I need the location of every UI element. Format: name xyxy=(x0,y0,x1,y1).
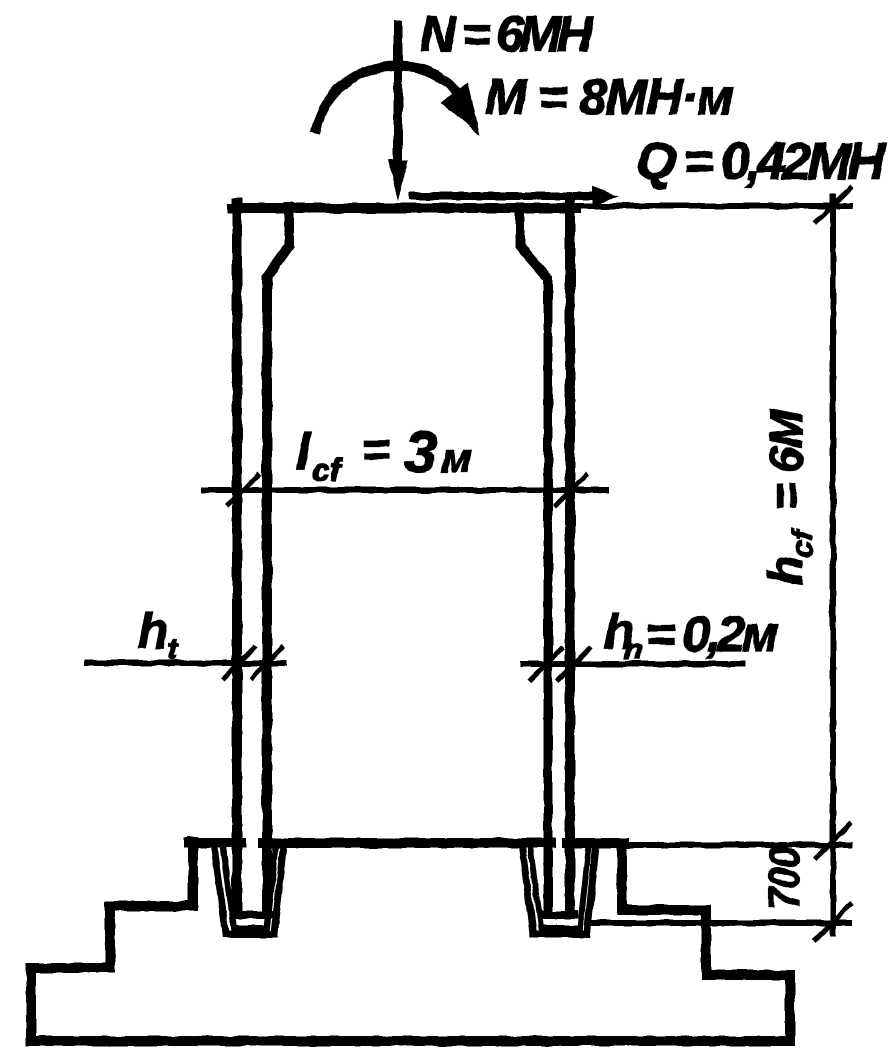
svg-text:м: м xyxy=(441,434,472,481)
svg-text:N = 6МН: N = 6МН xyxy=(420,6,594,62)
svg-text:=: = xyxy=(362,424,390,477)
svg-text:h: h xyxy=(138,603,169,659)
column right inner edge with haunch xyxy=(520,207,548,913)
column left outer edge xyxy=(232,203,242,913)
svg-text:h: h xyxy=(760,556,813,585)
svg-text:Q = 0,42МН: Q = 0,42МН xyxy=(636,133,886,191)
moment M arc xyxy=(316,66,480,135)
left socket inner wall xyxy=(223,846,276,928)
foundation top edge (left of left leg) xyxy=(189,838,241,848)
extension line from column top to dimension line xyxy=(576,203,849,209)
svg-text:n: n xyxy=(624,633,642,666)
extension line from foundation top to dimension line xyxy=(628,842,849,848)
label h_cf = 6m (rotated) xyxy=(760,408,819,585)
svg-text:M = 8МН·м: M = 8МН·м xyxy=(485,69,734,125)
dimension line h_n xyxy=(523,649,742,679)
svg-text:cf: cf xyxy=(786,527,819,557)
dimension line l_cf xyxy=(204,475,606,505)
svg-text:700: 700 xyxy=(760,847,809,909)
dimension line h_cf (vertical) xyxy=(816,188,850,939)
column top beam edge xyxy=(232,203,576,213)
svg-text:= 0,2м: = 0,2м xyxy=(646,606,779,662)
svg-text:cf: cf xyxy=(312,452,344,488)
foundation top edge (between legs) xyxy=(263,838,551,848)
label l_cf = 3m xyxy=(296,420,472,488)
svg-text:3: 3 xyxy=(405,420,437,485)
right socket inner wall xyxy=(530,846,589,928)
right socket outer wall xyxy=(522,846,596,934)
extension line from socket bottom to dimension line xyxy=(593,920,849,926)
dimension line h_t xyxy=(87,648,284,678)
force Q arrow xyxy=(413,186,619,206)
left leg bottom xyxy=(234,911,270,919)
label h_t xyxy=(138,603,179,666)
label h_n = 0,2m xyxy=(604,604,779,666)
foundation stepped outline xyxy=(31,842,790,1041)
left socket outer wall xyxy=(214,846,284,934)
foundation top edge (right of right leg) xyxy=(567,838,624,848)
svg-text:= 6М: = 6М xyxy=(760,408,812,510)
force N arrow xyxy=(388,25,408,201)
column left inner edge with haunch xyxy=(267,207,289,913)
svg-text:l: l xyxy=(296,423,312,481)
column right outer edge xyxy=(565,203,575,913)
right leg bottom xyxy=(545,911,574,919)
